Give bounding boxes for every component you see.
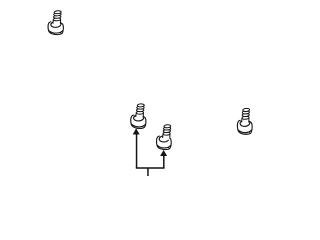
- wire: left leader vertical: [136, 134, 138, 168]
- wire: center stub: [147, 168, 149, 176]
- arrow to bolt 2: [133, 128, 140, 134]
- bolt 2 (middle left): [130, 103, 146, 128]
- wire: bottom horizontal: [136, 167, 165, 169]
- bolt 4 (right): [237, 108, 252, 134]
- bolt 1 (top left): [48, 11, 63, 35]
- wire: right leader vertical: [163, 156, 165, 168]
- bolt 3 (middle right): [156, 124, 171, 149]
- arrow to bolt 3: [160, 150, 167, 156]
